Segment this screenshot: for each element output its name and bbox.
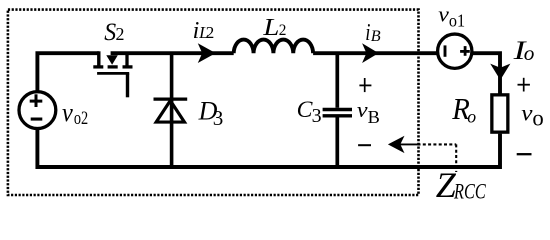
svg-text:B: B [371, 27, 381, 45]
svg-text:v: v [357, 97, 368, 122]
svg-text:B: B [368, 107, 380, 127]
svg-text:o: o [467, 107, 476, 127]
svg-text:v: v [62, 97, 73, 127]
svg-text:v: v [521, 101, 533, 127]
svg-text:o: o [524, 41, 535, 65]
svg-text:RCC: RCC [453, 179, 486, 204]
svg-text:2: 2 [116, 24, 125, 44]
svg-text:3: 3 [312, 105, 322, 127]
svg-text:L: L [262, 14, 279, 41]
svg-text:2: 2 [206, 23, 215, 42]
svg-text:3: 3 [213, 106, 224, 130]
svg-text:i: i [365, 19, 370, 46]
svg-text:C: C [297, 97, 313, 123]
svg-text:o: o [532, 106, 543, 131]
svg-text:o2: o2 [74, 108, 88, 129]
svg-text:2: 2 [279, 22, 287, 39]
svg-text:v: v [438, 2, 449, 27]
svg-text:o1: o1 [449, 11, 465, 31]
